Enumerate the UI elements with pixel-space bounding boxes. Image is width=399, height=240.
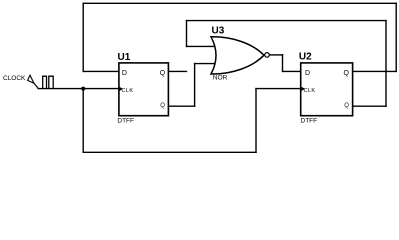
input terminal lead [34, 83, 38, 88]
wire into U1 D pin [83, 70, 119, 72]
svg-text:DTFF: DTFF [301, 117, 318, 124]
D flip-flop U2 body [301, 63, 353, 116]
wire outer feedback left vertical [82, 3, 84, 71]
svg-text:U3: U3 [212, 26, 225, 37]
wire inner feedback left vertical [186, 21, 188, 47]
svg-text:D: D [122, 70, 127, 77]
NOR output bubble [265, 53, 270, 58]
svg-text:Q: Q [160, 103, 165, 109]
svg-text:U1: U1 [118, 52, 131, 63]
wire U1 Qbar output [168, 105, 194, 107]
svg-text:Q: Q [160, 70, 166, 77]
svg-text:U2: U2 [299, 52, 312, 63]
svg-text:NOR: NOR [213, 75, 228, 82]
wire outer feedback top (U2.Q to U1.D) [83, 2, 396, 4]
svg-text:CLK: CLK [122, 88, 134, 94]
junction node CLOCK [81, 87, 85, 91]
wire clock bottom run [83, 151, 256, 153]
wire clock riser to U2 [255, 89, 257, 153]
svg-text:Q: Q [344, 70, 350, 77]
NOR gate U3 body [211, 37, 264, 74]
wire NOR output stub [269, 54, 282, 56]
wire inner feedback right vertical [385, 21, 387, 107]
wire NOR bottom input [195, 63, 215, 65]
wire inner feedback top (U2.Qbar to NOR input) [187, 20, 387, 22]
wire U2 Q output [353, 70, 397, 72]
svg-text:CLOCK: CLOCK [3, 75, 26, 82]
wire CLOCK horizontal [38, 88, 119, 90]
wire NOR top input [187, 45, 215, 47]
D flip-flop U1 body [119, 63, 168, 116]
svg-text:DTFF: DTFF [117, 117, 134, 124]
input terminal CLOCK triangle [28, 75, 34, 83]
U1 CLK edge triangle [120, 87, 123, 91]
wire outer feedback right vertical [395, 3, 397, 71]
wire into U2 D pin [283, 70, 302, 72]
clock waveform symbol [43, 76, 54, 88]
wire NOR output drop [282, 55, 284, 72]
svg-text:CLK: CLK [304, 88, 316, 94]
svg-text:Q: Q [344, 103, 349, 109]
wire U2 Qbar output [353, 105, 386, 107]
svg-text:D: D [305, 70, 310, 77]
wire U1 Q stub [168, 70, 186, 72]
wire Qbar riser vertical [194, 64, 196, 107]
wire into U2 CLK pin [256, 88, 301, 90]
wire clock drop vertical [82, 89, 84, 153]
U2 CLK edge triangle [302, 87, 305, 91]
